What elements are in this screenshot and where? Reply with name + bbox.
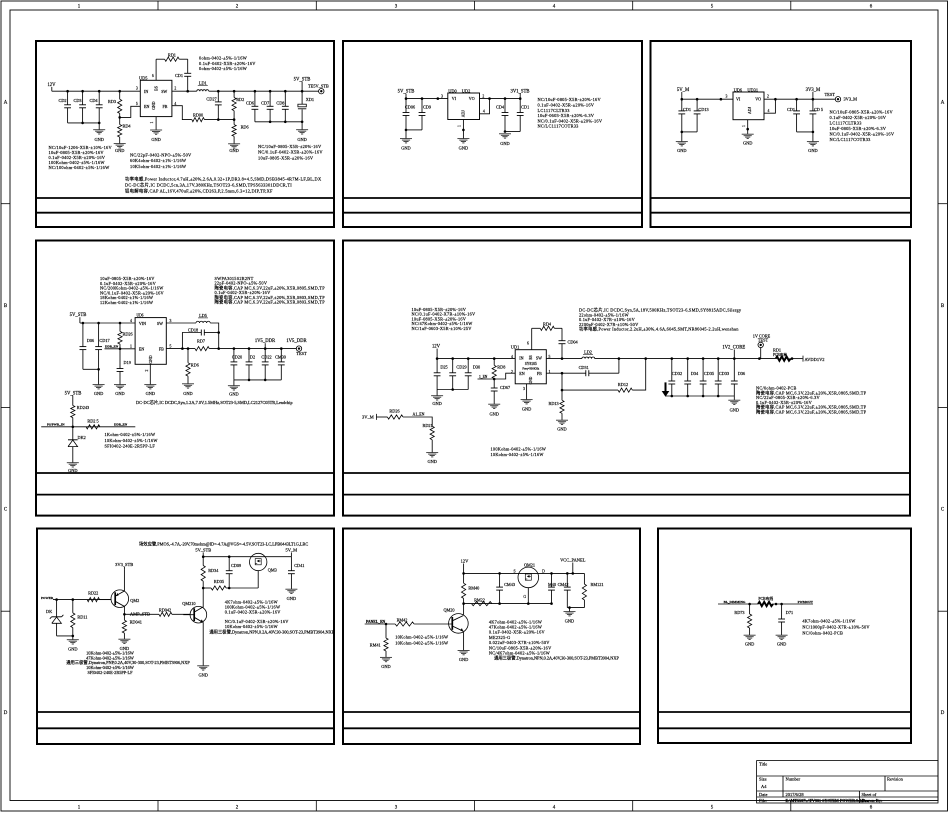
parts list text b6 bottom <box>66 651 190 675</box>
svg-text:3: 3 <box>170 319 172 323</box>
resistor RM41 <box>370 624 388 657</box>
ground under CD4 b2 <box>499 134 511 146</box>
svg-text:NC/0.1uF-0402-X5R-±20%-16V: NC/0.1uF-0402-X5R-±20%-16V <box>538 118 603 123</box>
svg-text:SW: SW <box>536 356 542 361</box>
resistor RD35 <box>203 579 229 590</box>
capacitor CD4 <box>89 91 102 123</box>
svg-text:VI: VI <box>736 97 741 102</box>
power net 5V_STB b4 lower <box>65 391 82 405</box>
capacitor CD67 <box>491 379 510 404</box>
svg-text:GND: GND <box>297 137 306 142</box>
svg-text:10uF-0805-X5R-±20%-16V: 10uF-0805-X5R-±20%-16V <box>258 155 314 160</box>
wire BL_DIMMING <box>718 603 758 606</box>
svg-text:0.1uF-0402-X5R-±20%-16V: 0.1uF-0402-X5R-±20%-16V <box>538 103 595 108</box>
svg-text:SW: SW <box>161 89 167 94</box>
ground under UD1 pin3 <box>521 384 533 412</box>
svg-text:CM30: CM30 <box>275 354 286 359</box>
wire 5V_STB rail <box>209 90 319 93</box>
capacitor CD06 <box>403 99 415 130</box>
svg-text:CD31: CD31 <box>579 365 589 370</box>
svg-text:FB: FB <box>537 371 542 376</box>
resistor RD2 <box>232 91 244 119</box>
svg-text:RD26: RD26 <box>389 409 399 414</box>
svg-text:功率电感,Power Inductor,2.2uH,±30%: 功率电感,Power Inductor,2.2uH,±30%,4.6A,6045… <box>579 326 739 333</box>
svg-text:GND: GND <box>522 407 531 412</box>
capacitor D25 <box>434 359 448 390</box>
svg-text:DDR_EN: DDR_EN <box>114 423 128 427</box>
parts list text b6 mid-right <box>225 600 282 615</box>
svg-text:CD41: CD41 <box>294 563 304 568</box>
parts list text b2 <box>538 97 603 129</box>
svg-text:10uF-0805-X5R-±20%-6.3V: 10uF-0805-X5R-±20%-6.3V <box>830 126 887 131</box>
svg-text:TEST: TEST <box>758 338 769 343</box>
ground under UD2 pin1 <box>457 120 469 151</box>
capacitor CD33 <box>715 359 729 396</box>
svg-text:D: D <box>4 711 8 716</box>
svg-text:TEST: TEST <box>825 92 836 97</box>
svg-text:3: 3 <box>441 94 443 98</box>
block2 (3V1_STB LDO) border <box>343 41 642 227</box>
ground under CD1 b3 <box>676 132 688 153</box>
svg-text:CD7: CD7 <box>261 100 269 105</box>
ground under D36 <box>728 396 740 412</box>
capacitor D19 <box>117 349 131 385</box>
svg-text:ADJ: ADJ <box>462 110 466 117</box>
svg-text:2017/6/28: 2017/6/28 <box>786 792 805 797</box>
node on 12V rail at CD4 <box>98 90 101 93</box>
capacitor D36 <box>731 359 745 396</box>
mosfet QM21 <box>513 563 545 604</box>
capacitor CD1 output b2 <box>517 99 529 132</box>
svg-text:NC/0.1uF-0402-X5R-±20%-16V: NC/0.1uF-0402-X5R-±20%-16V <box>258 150 323 155</box>
svg-text:RD7: RD7 <box>197 338 205 343</box>
svg-text:RD34: RD34 <box>208 568 219 573</box>
wire b2 output cap bottom <box>504 130 521 133</box>
resistor RD042 <box>159 608 190 617</box>
wire SW out b4 <box>166 322 196 324</box>
node RD3/RD4 junction <box>118 116 121 119</box>
wire RD13 stem <box>561 373 564 400</box>
resistor RD6 <box>232 120 249 144</box>
svg-text:VO: VO <box>469 96 475 101</box>
wire b5 input cap bottom <box>437 388 468 391</box>
resistor RD3 <box>108 91 122 117</box>
svg-text:GND: GND <box>68 468 77 473</box>
transistor QM20 <box>414 604 468 651</box>
svg-text:RD042: RD042 <box>159 608 171 613</box>
wire EN b5 <box>478 373 516 380</box>
svg-text:5V_M: 5V_M <box>677 88 690 93</box>
svg-text:RD21: RD21 <box>423 423 433 428</box>
power net 5V_STB (block2) <box>398 90 415 99</box>
svg-text:BS: BS <box>529 355 533 359</box>
diode DK <box>46 600 63 636</box>
parts list text b4 upper-right <box>215 276 326 306</box>
svg-text:GND: GND <box>115 391 124 396</box>
resistor RD4 b5 <box>532 321 562 330</box>
capacitor CD18 <box>181 328 219 350</box>
svg-text:RD8: RD8 <box>497 365 505 370</box>
svg-text:QM2: QM2 <box>130 598 139 603</box>
parts list text b5 right <box>756 386 867 416</box>
svg-text:RM42: RM42 <box>397 617 408 622</box>
svg-text:10Kohm-0402-±5%-1/16W: 10Kohm-0402-±5%-1/16W <box>225 624 279 629</box>
wire input rail b3 <box>681 98 734 101</box>
svg-text:DC-DC芯片,IC DCDC,5cn,3A,17V,380: DC-DC芯片,IC DCDC,5cn,3A,17V,380KHz,TSOT23… <box>125 182 292 189</box>
svg-text:陶瓷电容,CAP MC,6.3V,22uF,±20%,X5R: 陶瓷电容,CAP MC,6.3V,22uF,±20%,X5R,0805,SMD,… <box>756 409 867 416</box>
capacitor D2 <box>246 349 256 380</box>
svg-text:GND: GND <box>94 391 103 396</box>
svg-text:通用三极管,Dynatron,NPN,0.2A,40V,30: 通用三极管,Dynatron,NPN,0.2A,40V,30-300,SOT-2… <box>494 655 619 662</box>
svg-text:NC/LC1117COTR33: NC/LC1117COTR33 <box>538 124 580 129</box>
svg-text:BS: BS <box>154 86 158 91</box>
transistor QM210 <box>182 601 206 666</box>
svg-text:NC/10uF-0805-X5R-±20%-16V: NC/10uF-0805-X5R-±20%-16V <box>258 144 322 149</box>
parts list text b3 <box>830 110 895 143</box>
svg-text:UD0: UD0 <box>448 88 457 93</box>
ground under RD4 <box>114 144 126 153</box>
capacitor CD7 <box>261 91 273 122</box>
svg-text:3: 3 <box>136 87 138 91</box>
node on 12V rail at CD3 <box>81 90 84 93</box>
svg-text:CM42: CM42 <box>558 582 569 587</box>
svg-text:通用三极管,Dynatron,NPN,0.2A,40V,30: 通用三极管,Dynatron,NPN,0.2A,40V,30-300,SOT-2… <box>209 628 334 635</box>
parts list text b5 upper-right <box>579 307 742 333</box>
resistor RM40 <box>462 573 480 603</box>
capacitor CD27 <box>206 91 221 119</box>
svg-text:D34: D34 <box>691 371 699 376</box>
net label A1_EN <box>413 413 425 417</box>
svg-text:GND: GND <box>529 376 533 384</box>
wire ADJ pin4 stub b2 <box>480 99 490 114</box>
wire cap bottom rail <box>68 122 101 125</box>
svg-text:PCB布局: PCB布局 <box>773 352 787 357</box>
svg-text:1: 1 <box>458 125 462 127</box>
svg-text:NC/1000pF-0402-X7R-±10%-50V: NC/1000pF-0402-X7R-±10%-50V <box>802 625 870 630</box>
resistor RD26 b5 <box>387 409 403 420</box>
svg-text:CD4: CD4 <box>89 98 98 103</box>
svg-text:10Kohm-0402-±5%-1/16W: 10Kohm-0402-±5%-1/16W <box>395 640 449 645</box>
mosfet QM3 <box>229 553 277 588</box>
power net VCC_PANEL <box>560 558 586 574</box>
svg-text:RD041: RD041 <box>130 619 142 624</box>
svg-text:NC/LC1117COTR33: NC/LC1117COTR33 <box>830 137 872 142</box>
block6 (5V_M switch) border <box>37 529 334 745</box>
svg-text:6: 6 <box>527 341 529 345</box>
svg-text:RD35: RD35 <box>214 579 224 584</box>
net label BL_DIMMING <box>724 600 746 604</box>
svg-text:IN: IN <box>519 356 523 361</box>
svg-text:RD22: RD22 <box>88 590 98 595</box>
resistor RD00 <box>192 112 236 121</box>
svg-text:A: A <box>4 101 8 106</box>
svg-text:GND: GND <box>151 137 160 142</box>
svg-text:VIN: VIN <box>139 321 146 326</box>
port PANEL_EN <box>365 620 396 625</box>
resistor RD1 PCB <box>773 347 803 360</box>
net label DDR_EN <box>105 345 119 349</box>
svg-text:EN: EN <box>519 371 524 376</box>
wire RD1 to CD1 <box>187 59 189 73</box>
svg-text:FB: FB <box>159 347 164 352</box>
ground under UD6 pin2 <box>144 364 156 396</box>
svg-text:VI: VI <box>452 96 457 101</box>
svg-text:ADJ: ADJ <box>748 107 752 114</box>
svg-text:CD29: CD29 <box>456 365 466 370</box>
wire 1V2_CORE rail <box>595 357 776 360</box>
svg-text:GND: GND <box>565 618 574 623</box>
capacitor CD9 <box>419 99 431 130</box>
wire input rail b4 <box>82 322 136 325</box>
power net 5V_M b6 <box>285 547 297 556</box>
ground under CD17 <box>93 369 105 396</box>
svg-text:CD3: CD3 <box>73 98 81 103</box>
svg-text:CD27: CD27 <box>206 97 216 102</box>
svg-text:RD11: RD11 <box>77 614 87 619</box>
svg-text:GND: GND <box>229 392 238 397</box>
parts list text b6 mid-right2 <box>225 619 290 629</box>
svg-text:GND: GND <box>115 148 124 153</box>
wire b3 output cap bottom <box>797 131 815 134</box>
svg-text:XD1: XD1 <box>306 97 314 102</box>
svg-text:DDR_EN: DDR_EN <box>105 345 119 349</box>
svg-text:RD73: RD73 <box>734 610 744 615</box>
svg-text:CD1: CD1 <box>175 73 183 78</box>
wire A1_EN <box>403 417 432 426</box>
svg-text:D30: D30 <box>473 365 480 370</box>
svg-text:3V3_M: 3V3_M <box>844 97 858 102</box>
capacitor D71 <box>778 604 793 635</box>
wire b3 input cap bottom <box>681 131 698 134</box>
wire ADJ pin4 stub b3 <box>764 99 775 113</box>
block3 (3V3_M LDO) border <box>651 41 912 227</box>
inductor LD2 <box>582 349 595 358</box>
svg-text:1Kohm-0402-±5%-1/16W: 1Kohm-0402-±5%-1/16W <box>105 432 156 437</box>
svg-text:CD6: CD6 <box>246 100 254 105</box>
svg-text:D: D <box>941 711 945 716</box>
svg-text:4K7ohm-0402-±5%-1/16W: 4K7ohm-0402-±5%-1/16W <box>802 618 856 623</box>
svg-text:GND: GND <box>777 641 786 646</box>
svg-text:CM43: CM43 <box>504 582 515 587</box>
capacitor CD1 output b3 <box>787 99 800 132</box>
svg-text:4: 4 <box>130 319 132 323</box>
power net 1V5_DDR <box>255 339 276 348</box>
wire input rail b2 <box>405 97 448 100</box>
svg-text:铝电解电容,CAP AL,16V,470uF,±20%,CD: 铝电解电容,CAP AL,16V,470uF,±20%,CD263,P,2.5m… <box>125 188 273 195</box>
svg-text:E:\MT5507\..\TV901-SYSTEM POWE: E:\MT5507\..\TV901-SYSTEM POWER.SchDoc <box>786 798 870 803</box>
svg-text:2: 2 <box>482 94 484 98</box>
svg-text:陶瓷电容,CAP MC,6.3V,22uF,±20%,X5R: 陶瓷电容,CAP MC,6.3V,22uF,±20%,X5R,0803,SMD,… <box>215 299 326 306</box>
svg-text:CD04: CD04 <box>568 340 579 345</box>
svg-text:Freq=500KHz: Freq=500KHz <box>522 366 540 370</box>
svg-text:C: C <box>4 508 7 513</box>
power net 12V b7 <box>461 559 469 574</box>
svg-text:Revision: Revision <box>887 777 904 782</box>
svg-text:SW: SW <box>157 321 163 326</box>
power net 3V1_STB <box>510 90 529 99</box>
wire gate row b6 <box>202 587 231 590</box>
svg-text:3V3_STB: 3V3_STB <box>115 562 133 567</box>
svg-text:GND: GND <box>183 391 192 396</box>
svg-text:RD12: RD12 <box>618 382 628 387</box>
resistor RD34 <box>201 557 219 588</box>
svg-text:4: 4 <box>483 109 485 113</box>
test point TE5V_STB <box>308 83 329 94</box>
svg-text:RM121: RM121 <box>591 582 604 587</box>
svg-text:NC/0ohm-0402-PCB: NC/0ohm-0402-PCB <box>802 631 843 636</box>
resistor RM42 <box>395 617 414 626</box>
wire to test point b3 <box>813 98 836 100</box>
wire EN rail b4 <box>105 348 136 351</box>
capacitor CD8 <box>276 91 288 122</box>
capacitor CD17 <box>95 323 109 369</box>
ground under RD21 <box>426 453 438 464</box>
svg-text:2: 2 <box>511 370 513 374</box>
svg-text:10Kohm-0402-±5%-1/16W: 10Kohm-0402-±5%-1/16W <box>491 452 545 457</box>
svg-text:1V5_DDR: 1V5_DDR <box>286 339 307 344</box>
svg-text:RD26: RD26 <box>123 331 133 336</box>
svg-text:场效应管,PMOS,-4.7A,-20V,70mohm@ID: 场效应管,PMOS,-4.7A,-20V,70mohm@ID=-4.7A@VGS… <box>139 540 308 547</box>
resistor RD21 <box>423 423 435 453</box>
ground under QM20 <box>458 651 470 663</box>
capacitor CD22 <box>261 349 271 380</box>
svg-text:GND: GND <box>152 101 156 109</box>
port PS/PWR_IN <box>47 423 65 427</box>
parts list text right <box>258 144 323 160</box>
svg-text:TE5V_STB: TE5V_STB <box>308 83 329 88</box>
svg-text:NC/100ohm-0402-±5%-1/16W: NC/100ohm-0402-±5%-1/16W <box>49 165 111 170</box>
regulator IC UD0 UD2 <box>448 88 480 127</box>
wire SW out b5 <box>546 357 582 360</box>
ground under D19 <box>114 385 126 396</box>
svg-text:DC-DC芯片,IC DCDC,Syn,1.2A,7.0V,: DC-DC芯片,IC DCDC,Syn,1.2A,7.0V,1.5MHz,SOT… <box>136 399 293 406</box>
svg-text:GND: GND <box>743 140 752 145</box>
parts list text b7 npn <box>494 655 619 662</box>
svg-text:D71: D71 <box>786 610 793 615</box>
capacitor CD41 <box>288 557 304 590</box>
capacitor CD2 <box>58 91 71 123</box>
ground under D71 <box>776 635 788 646</box>
wire input rail b5 <box>436 357 515 360</box>
wire LD5 to FB rail <box>210 323 220 350</box>
test point 1V5_DDR <box>286 339 307 356</box>
capacitor CD29 <box>449 359 466 390</box>
svg-text:TEST: TEST <box>296 351 307 356</box>
resistor RD7 <box>195 338 209 350</box>
svg-text:D2: D2 <box>250 354 255 359</box>
parts list text bottom <box>125 176 322 195</box>
net label PWMOUT <box>798 600 814 604</box>
svg-text:GND: GND <box>146 391 155 396</box>
inductor LD5 <box>196 313 210 323</box>
svg-text:5V_STB: 5V_STB <box>195 547 211 552</box>
power net 5V_STB <box>294 77 311 91</box>
svg-text:10Kohm-0402-±5%-1/16W: 10Kohm-0402-±5%-1/16W <box>105 438 159 443</box>
ground under UD5 <box>150 117 162 142</box>
svg-text:File:: File: <box>759 798 767 803</box>
svg-text:0ohm-0402-±5%-1/16W: 0ohm-0402-±5%-1/16W <box>199 66 248 71</box>
wire 12V rail b7 <box>462 572 584 575</box>
ground under RD6 <box>228 144 240 153</box>
wire SW output <box>172 90 197 93</box>
capacitor CD35 <box>700 359 714 396</box>
regulator IC UD1 SY8105 <box>511 341 551 391</box>
svg-text:GND: GND <box>229 148 238 153</box>
svg-text:LD5: LD5 <box>199 313 207 318</box>
svg-text:VO: VO <box>755 97 761 102</box>
wire b2 input cap bottom <box>405 129 422 132</box>
svg-text:GND: GND <box>287 596 296 601</box>
svg-text:GND: GND <box>557 427 566 432</box>
diode DK2 <box>68 427 86 463</box>
capacitor D06 <box>80 323 95 369</box>
resistor RM22 <box>472 597 492 605</box>
svg-text:D25: D25 <box>440 365 447 370</box>
svg-text:DK2: DK2 <box>78 435 86 440</box>
parts list text top <box>199 56 256 72</box>
svg-text:GND: GND <box>808 148 817 153</box>
svg-text:60K4ohm-0402-±1%-1/16W: 60K4ohm-0402-±1%-1/16W <box>130 158 187 163</box>
svg-text:CD4: CD4 <box>496 105 505 110</box>
svg-text:G: G <box>523 595 526 599</box>
capacitor CM43 <box>496 573 515 603</box>
capacitor CD32 <box>668 359 682 396</box>
pin number 3 b2 <box>441 94 443 98</box>
block7 (VCC_PANEL switch) border <box>343 529 640 745</box>
svg-text:3: 3 <box>726 95 728 99</box>
svg-text:EN: EN <box>139 347 144 352</box>
electrolytic capacitor XD1 <box>298 91 314 122</box>
block5 (1V2_CORE buck converter) border <box>343 241 910 516</box>
ground under CD67 <box>488 404 500 416</box>
svg-text:RD6: RD6 <box>241 124 249 129</box>
gnd arrow symbol b5 <box>662 382 670 396</box>
wire FB b4 <box>166 347 195 350</box>
svg-text:GND: GND <box>489 411 498 416</box>
wire CM42 RM121 bottom <box>567 606 584 609</box>
svg-text:NC/22pF-0402-NPO-±5%-50V: NC/22pF-0402-NPO-±5%-50V <box>130 153 192 158</box>
node on 12V rail at CD2 <box>66 90 69 93</box>
svg-text:GND: GND <box>94 137 103 142</box>
svg-text:5: 5 <box>136 102 138 106</box>
transistor QM2 <box>111 569 139 614</box>
svg-text:DK: DK <box>46 609 53 614</box>
svg-text:UD31: UD31 <box>747 87 758 92</box>
wire b4 input cap bottom <box>83 368 100 371</box>
port POWER <box>41 596 111 601</box>
svg-text:D19: D19 <box>124 360 131 365</box>
node on 12V rail at RD3 <box>118 90 121 93</box>
wire EN lower b4 <box>41 426 135 429</box>
block4 (1V5_DDR buck converter) border <box>36 241 334 516</box>
power net 5V_STB b4 <box>70 313 87 323</box>
svg-text:0ohm-0402-±5%-1/16W: 0ohm-0402-±5%-1/16W <box>199 56 248 61</box>
svg-text:4: 4 <box>511 355 513 359</box>
capacitor CD20 <box>231 349 243 380</box>
svg-text:GND: GND <box>459 657 468 662</box>
node AMP_STB <box>123 612 150 617</box>
svg-text:100Kohm-0402-±5%-1/16W: 100Kohm-0402-±5%-1/16W <box>491 447 547 452</box>
resistor RD22 <box>87 590 111 601</box>
parts list text b4 center <box>136 399 293 406</box>
svg-text:UD6: UD6 <box>734 87 743 92</box>
svg-text:RD6: RD6 <box>191 362 199 367</box>
svg-text:功率电感,Power Inductor,4.7uH,±20%: 功率电感,Power Inductor,4.7uH,±20%,2.6A,0.32… <box>125 176 322 183</box>
svg-text:5: 5 <box>170 344 172 348</box>
capacitor CD4 output b2 <box>496 99 508 132</box>
power net 5V_STB b6 <box>195 547 211 556</box>
svg-text:LD1: LD1 <box>199 80 207 85</box>
